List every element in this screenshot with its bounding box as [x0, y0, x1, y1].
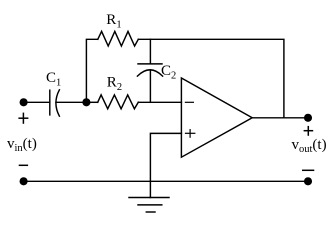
svg-text:vin(t): vin(t): [7, 136, 37, 154]
